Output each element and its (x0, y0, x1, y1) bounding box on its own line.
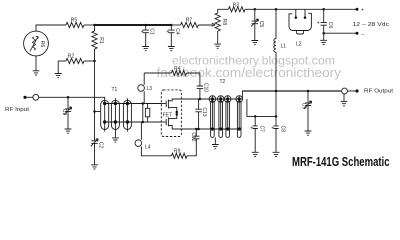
resistor R9 (feedback lower) (172, 139, 197, 158)
wire: T1 center tube to ground (114, 132, 116, 138)
svg-text:L3: L3 (147, 86, 153, 92)
svg-text:R9: R9 (174, 149, 181, 155)
resistor R3 (218, 2, 255, 12)
svg-text:R6: R6 (39, 41, 45, 48)
wire: R6 top to rail (36, 25, 66, 31)
node: C4 rail tap (170, 24, 173, 27)
node: crossing L1 feed (275, 90, 278, 93)
choke L1 (DC feed) (274, 9, 286, 116)
svg-text:C4: C4 (174, 28, 180, 35)
capacitor C7 (feed bypass) (250, 116, 264, 152)
ground under R6 (33, 71, 40, 75)
wire: minus rail (324, 32, 357, 34)
ground under C9 (305, 131, 312, 135)
svg-text:MRF-141G Schematic: MRF-141G Schematic (292, 154, 390, 169)
transistor Q1b (lower MOSFET of MRF-141G) (161, 115, 181, 129)
trimmer capacitor C2 (bias bypass) (91, 139, 104, 165)
node: + terminal (356, 8, 359, 11)
ground at R2 left (57, 61, 59, 73)
wire: T1 braid top link / gate1 line (105, 103, 162, 105)
wire: T2 tube4 to output line (239, 91, 242, 99)
node: C1 rail tap (144, 24, 147, 27)
potentiometer R8 (215, 9, 227, 44)
svg-text:RF Output: RF Output (364, 88, 394, 94)
resistor R2 (58, 54, 94, 64)
connector: RF input jack (25, 96, 33, 98)
svg-text:+: + (317, 21, 320, 27)
node: - terminal (356, 32, 359, 35)
node: feed junctions (254, 115, 257, 118)
capacitor C12 (feedback lower) (190, 129, 200, 142)
ground under C5 (251, 41, 258, 45)
svg-text:R8: R8 (221, 19, 227, 26)
svg-text:RF Input: RF Input (5, 107, 30, 113)
wire: top drain line (181, 98, 242, 100)
svg-text:C1: C1 (148, 28, 154, 35)
node: L1 feed tap (275, 8, 278, 11)
ground under output jack (343, 94, 345, 101)
svg-text:R4: R4 (174, 66, 181, 72)
resistor R1 (92, 25, 104, 61)
node: V+ rail junction at C5 (254, 8, 256, 11)
node: bias tap to T1 (93, 110, 96, 113)
wire: RF input to T1 (68, 97, 105, 98)
node: T1 braid dots x=127.4 (126, 102, 129, 105)
electrolytic capacitor C6 (317, 9, 333, 33)
trimmer capacitor C3 (input) (61, 97, 72, 128)
svg-text:R1: R1 (98, 37, 104, 44)
node: rail junction at R5/R1 (93, 24, 96, 27)
wire: T1 braid bottom link / gate2 line (105, 121, 162, 123)
ground under C3 (65, 129, 72, 133)
svg-text:C12: C12 (190, 132, 196, 141)
transistor Q1a (upper MOSFET of MRF-141G) (161, 99, 181, 111)
trimmer capacitor C5 (251, 9, 264, 40)
svg-text:R3: R3 (233, 2, 240, 8)
svg-text:R5: R5 (71, 18, 78, 24)
svg-text:C6: C6 (327, 22, 333, 29)
resistor R7 (171, 18, 198, 28)
ground at minus rail (323, 33, 325, 40)
svg-text:C10: C10 (202, 83, 208, 92)
svg-text:+: + (141, 29, 144, 35)
node: source dots (176, 111, 179, 114)
transformer T2 (output, coax tubes) (209, 79, 242, 137)
svg-text:C8: C8 (279, 125, 285, 132)
ground under R8 (214, 44, 221, 48)
svg-text:T2: T2 (220, 79, 226, 85)
svg-text:R7: R7 (186, 18, 193, 24)
wire: V+ rail to + terminal (255, 8, 357, 10)
svg-text:12 – 28 Vdc: 12 – 28 Vdc (353, 22, 390, 28)
svg-text:C5: C5 (258, 21, 264, 28)
wire: RF output line (242, 90, 341, 92)
wire: thick supply rail (95, 24, 172, 26)
svg-text:+: + (250, 125, 253, 131)
node: feedback joins bottom drain line (195, 128, 198, 131)
svg-text:L1: L1 (281, 44, 287, 50)
inductor L3 (feedback pigtail, upper) (138, 73, 152, 104)
capacitor C8 (feed bypass) (271, 116, 285, 152)
svg-text:–: – (362, 32, 365, 38)
wire: bottom drain line (181, 128, 241, 130)
connector: RF output jack (342, 88, 348, 94)
ground under T2 (214, 137, 216, 144)
svg-text:C9: C9 (301, 103, 307, 110)
svg-text:+: + (166, 29, 169, 35)
ground under T1 (112, 138, 119, 142)
svg-text:C2: C2 (98, 142, 104, 149)
potentiometer R6 (bias adjust, in circle) (24, 31, 49, 56)
svg-text:L4: L4 (145, 145, 151, 151)
svg-text:+: + (271, 125, 274, 131)
wire: R5 to rail junction (84, 24, 95, 26)
svg-text:+: + (361, 7, 364, 13)
wire: bias tap stub (95, 111, 101, 113)
capacitor C13 (drain-drain) (195, 99, 206, 129)
wire R6 bottom (35, 56, 37, 71)
svg-text:FET: FET (163, 113, 172, 119)
node: C6 bottom junction (322, 32, 325, 35)
FET package dashed outline (161, 90, 181, 137)
ground under C2 (91, 165, 98, 169)
svg-text:C13: C13 (201, 107, 207, 116)
trimmer capacitor C9 (output) (301, 91, 312, 131)
transformer T1 (input, coax tubes) (101, 87, 132, 132)
wire: T2 braid to DC feed (247, 99, 276, 116)
ground under C1 (142, 47, 149, 51)
node: RF input terminal (23, 96, 26, 99)
ground under C4 (168, 47, 175, 51)
gate termination network (R/C between gate lines) (142, 102, 150, 123)
inductor L4 (feedback pigtail, lower) (135, 122, 172, 156)
wire: bias feed line down (94, 61, 96, 141)
choke L2 on ferrite (supply lead) (289, 9, 311, 47)
node: C9 tap (307, 90, 310, 93)
resistor R5 (66, 18, 84, 28)
svg-text:L2: L2 (296, 42, 302, 48)
svg-text:T1: T1 (112, 87, 118, 93)
wire with wiper arrow into R8 (198, 23, 215, 26)
resistor R4 (feedback upper) (144, 66, 200, 86)
node: bias junction R1/R2 (93, 60, 96, 63)
capacitor C10 (feedback upper) (197, 83, 209, 99)
node: C6 top on rail (322, 8, 325, 11)
capacitor C4 (rail bypass) (166, 25, 180, 46)
node: T1 braid dots x=115.4 (114, 102, 117, 105)
svg-text:R2: R2 (68, 54, 75, 60)
svg-text:C7: C7 (259, 125, 265, 132)
node: feedback joins top drain line (199, 98, 202, 101)
svg-text:C3: C3 (61, 109, 67, 116)
capacitor C1 (rail bypass) (141, 25, 155, 46)
node: C3 tap (67, 96, 70, 99)
node: T1 braid dots x=104.7 (103, 102, 106, 105)
